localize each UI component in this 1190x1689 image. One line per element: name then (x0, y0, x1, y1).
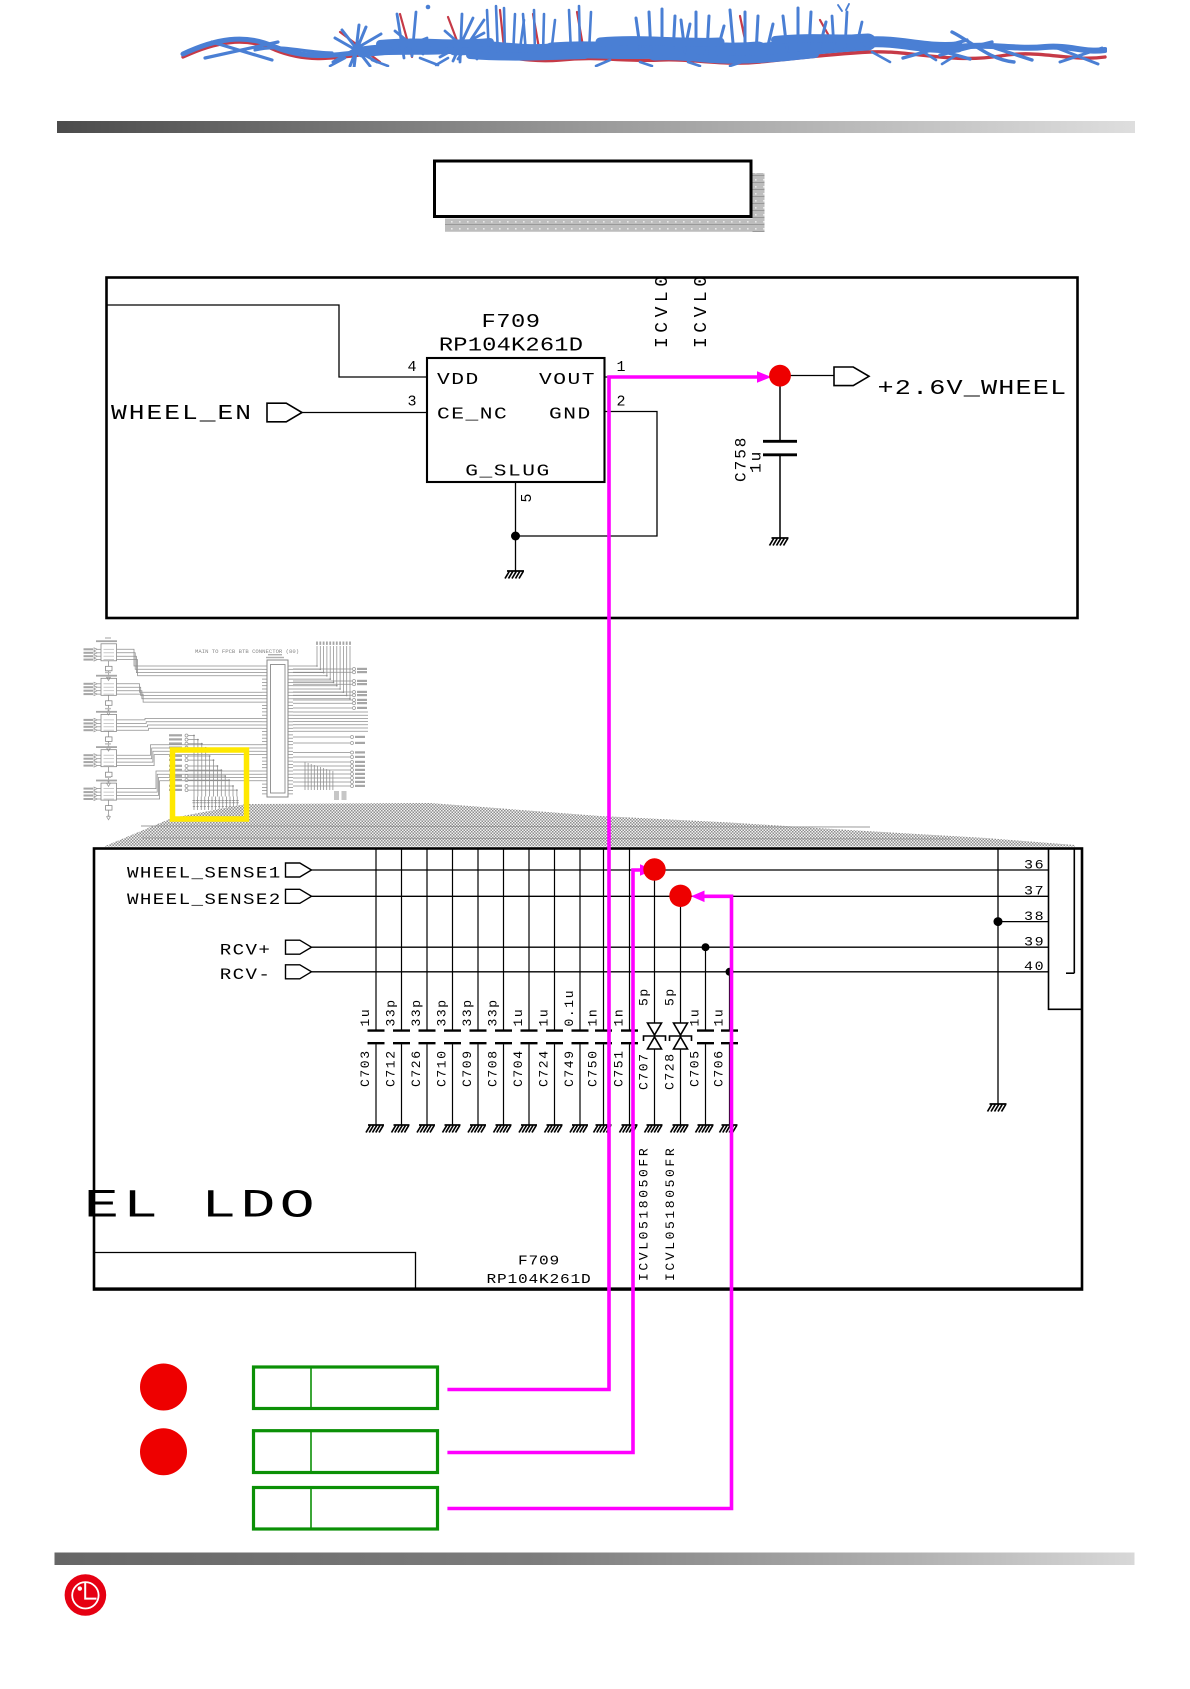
legend box 3 (254, 1488, 438, 1530)
zoom wedge hatch (104, 803, 1075, 847)
thumbnail filter groups and bus wires (94, 644, 262, 820)
svg-text:C750: C750 (586, 1049, 601, 1087)
label C758 (733, 436, 751, 482)
pin name CE_NC (437, 404, 508, 423)
port +2.6V_WHEEL (834, 367, 869, 386)
ground (C750) (594, 1125, 612, 1133)
svg-text:WHEEL_SENSE1: WHEEL_SENSE1 (127, 865, 282, 883)
value 5p (C707) (637, 987, 652, 1006)
svg-text:1: 1 (616, 359, 625, 376)
label C709 (460, 1049, 475, 1087)
pin number 5 (519, 493, 536, 502)
value 33p (C708) (486, 998, 501, 1026)
capacitor C704 (528, 849, 530, 1030)
value 1u (C705) (688, 1008, 703, 1027)
ground (C724) (545, 1125, 563, 1133)
label C706 (712, 1049, 727, 1087)
op-amp U1 : LDO regulator F709 RP104K261D body (427, 358, 605, 482)
ground (C751) (620, 1125, 638, 1133)
capacitor C709 (477, 849, 479, 1030)
top gray divider bar (57, 121, 1135, 133)
svg-text:C708: C708 (486, 1049, 501, 1087)
net label +2.6V_WHEEL (878, 377, 1068, 401)
svg-text:C706: C706 (712, 1049, 727, 1087)
capacitor C724 (554, 849, 556, 1030)
label C750 (586, 1049, 601, 1087)
svg-text:33p: 33p (384, 998, 399, 1026)
ground (C749) (570, 1125, 588, 1133)
svg-text:GND: GND (549, 404, 592, 423)
svg-text:ICVL0: ICVL0 (692, 271, 712, 348)
svg-text:33p: 33p (409, 998, 424, 1026)
ground (C705) (696, 1125, 714, 1133)
svg-text:1u: 1u (688, 1008, 703, 1027)
wire stub pin 38 (998, 921, 1049, 923)
node WHEEL_SENSE2 (red marker) (669, 885, 691, 907)
ground (C709) (468, 1125, 486, 1133)
svg-text:ICVL0518050FR: ICVL0518050FR (663, 1146, 678, 1281)
junction pin 38 / ground bus (994, 917, 1003, 926)
pin name GND (549, 404, 592, 423)
value 33p (C726) (409, 998, 424, 1026)
wire WHEEL_SENSE1 (pin 36) (312, 869, 1049, 871)
svg-text:RCV+: RCV+ (220, 942, 272, 960)
svg-text:C707: C707 (637, 1052, 652, 1090)
svg-text:ICVL0: ICVL0 (653, 271, 673, 348)
svg-text:ICVL0518050FR: ICVL0518050FR (637, 1146, 652, 1281)
svg-text:1n: 1n (612, 1008, 627, 1027)
label F709 (518, 1255, 560, 1269)
capacitor C751 (629, 849, 631, 1030)
callout wire WHEEL_SENSE2 (magenta 3) (447, 896, 731, 1508)
svg-text:F709: F709 (482, 312, 541, 333)
capacitor C726 (426, 849, 428, 1030)
label C728 (663, 1052, 678, 1090)
net label WHEEL_SENSE2 (127, 891, 282, 909)
part number ICVL0518050FR (C728) (663, 1146, 678, 1281)
svg-text:F709: F709 (518, 1255, 560, 1269)
LDO schematic frame (107, 278, 1078, 619)
svg-text:1u: 1u (358, 1008, 373, 1027)
svg-text:5: 5 (519, 493, 536, 502)
legend red circle 1 (140, 1364, 187, 1411)
value 0.1u (C749) (562, 989, 577, 1027)
capacitor C710 (452, 849, 454, 1030)
svg-text:39: 39 (1024, 936, 1045, 950)
value RP104K261D (487, 1273, 592, 1287)
wire WHEEL_EN to pin 3 (302, 412, 427, 414)
svg-text:1u: 1u (511, 1008, 526, 1027)
svg-text:0.1u: 0.1u (562, 989, 577, 1027)
label F709 (482, 312, 541, 333)
value 1n (C750) (586, 1008, 601, 1027)
svg-text:2: 2 (616, 394, 625, 411)
port RCV- (286, 965, 312, 979)
yellow highlight box (173, 750, 247, 819)
title EL LDO (cropped WHEEL LDO) (84, 1184, 319, 1229)
capacitor C708 (503, 849, 505, 1030)
svg-text:VDD: VDD (437, 370, 480, 389)
svg-text:1u: 1u (712, 1008, 727, 1027)
thumbnail connector body (267, 660, 288, 797)
svg-text:C751: C751 (612, 1049, 627, 1087)
ground (C712) (392, 1125, 410, 1133)
wire from frame to VDD pin 4 (107, 305, 427, 377)
node WHEEL_SENSE1 (red marker) (643, 858, 665, 880)
ground (C758) (770, 538, 789, 546)
value 1u (C706) (712, 1008, 727, 1027)
thumbnail mini schematic (84, 637, 369, 820)
thumbnail connector pins (262, 666, 293, 794)
label C705 (688, 1049, 703, 1087)
ground (C707) (645, 1125, 663, 1133)
value 1n (C751) (612, 1008, 627, 1027)
svg-text:C703: C703 (358, 1049, 373, 1087)
decorative blue/red grunge banner (183, 4, 1105, 68)
svg-text:C705: C705 (688, 1049, 703, 1087)
svg-text:RCV-: RCV- (220, 966, 272, 984)
label C707 (637, 1052, 652, 1090)
port RCV+ (286, 940, 312, 954)
connector outline inner wall foot (1066, 972, 1074, 974)
svg-text:CE_NC: CE_NC (437, 404, 508, 423)
wire GND pin 2 loop (516, 412, 658, 537)
wire VOUT to node +2.6V_WHEEL (605, 376, 770, 378)
svg-text:C712: C712 (384, 1049, 399, 1087)
svg-text:C726: C726 (409, 1049, 424, 1087)
junction RCV-/C706 (726, 968, 734, 976)
svg-text:C704: C704 (511, 1049, 526, 1087)
label C708 (486, 1049, 501, 1087)
svg-text:VOUT: VOUT (539, 370, 596, 389)
svg-text:4: 4 (407, 359, 416, 376)
part number ICVL0518050FR (C707) (637, 1146, 652, 1281)
svg-text:5p: 5p (663, 987, 678, 1006)
ground (C710) (443, 1125, 461, 1133)
capacitor C758 (779, 386, 781, 440)
label C703 (358, 1049, 373, 1087)
value 1u (C704) (511, 1008, 526, 1027)
label C724 (537, 1049, 552, 1087)
wire junction to ground (515, 536, 517, 571)
capacitor C749 (579, 849, 581, 1030)
ground (C728) (671, 1125, 689, 1133)
title block partition (95, 1253, 416, 1289)
LG logo (65, 1574, 107, 1616)
connector outline inner wall (1073, 849, 1075, 973)
pin number 39 (1024, 936, 1045, 950)
svg-text:40: 40 (1024, 961, 1045, 975)
ground (C703) (366, 1125, 384, 1133)
thumbnail connector right-side wires (293, 646, 368, 800)
port WHEEL_SENSE2 (286, 889, 312, 903)
value RP104K261D (439, 335, 583, 356)
svg-text:C724: C724 (537, 1049, 552, 1087)
node +2.6V_WHEEL (red marker) (769, 365, 791, 387)
pin number 40 (1024, 961, 1045, 975)
title box (435, 161, 752, 217)
frame bottom edge (95, 1287, 1081, 1289)
bottom gray divider bar (55, 1553, 1135, 1566)
net label WHEEL_SENSE1 (127, 865, 282, 883)
junction RCV+/C705 (702, 943, 710, 951)
svg-text:33p: 33p (435, 998, 450, 1026)
svg-text:1u: 1u (537, 1008, 552, 1027)
svg-text:38: 38 (1024, 911, 1045, 925)
legend red circle 2 (140, 1428, 187, 1475)
ground (pin 38 bus) (988, 1104, 1007, 1112)
callout wire WHEEL_SENSE1 (magenta 2) (447, 870, 641, 1453)
label C751 (612, 1049, 627, 1087)
callout wire VOUT net (magenta 1) (447, 377, 758, 1390)
capacitor C703 (375, 849, 377, 1030)
label C710 (435, 1049, 450, 1087)
svg-text:1u: 1u (748, 450, 766, 473)
value 1u (748, 450, 766, 473)
junction G_SLUG/GND (511, 532, 520, 541)
svg-text:C749: C749 (562, 1049, 577, 1087)
label C749 (562, 1049, 577, 1087)
labels ICVL0 (clipped by frame) (653, 271, 712, 348)
svg-text:RP104K261D: RP104K261D (487, 1273, 592, 1287)
net label RCV+ (220, 942, 272, 960)
diode/capacitor C728 (ESD TVS) (680, 902, 682, 1023)
wire RCV+ (pin 39) (312, 946, 1049, 948)
label C704 (511, 1049, 526, 1087)
pin number 38 (1024, 911, 1045, 925)
svg-text:RP104K261D: RP104K261D (439, 335, 583, 356)
value 33p (C710) (435, 998, 450, 1026)
svg-text:G_SLUG: G_SLUG (465, 461, 550, 480)
svg-text:MAIN TO FPCB BTB CONNECTOR (80: MAIN TO FPCB BTB CONNECTOR (80) (195, 648, 299, 655)
value 1u (C724) (537, 1008, 552, 1027)
legend box 1 (254, 1367, 438, 1409)
svg-text:1n: 1n (586, 1008, 601, 1027)
ground (C726) (417, 1125, 435, 1133)
wire RCV- (pin 40) (312, 971, 1049, 973)
svg-text:33p: 33p (460, 998, 475, 1026)
diode/capacitor C707 (ESD TVS) (654, 876, 656, 1023)
ground (C708) (494, 1125, 512, 1133)
svg-text:WHEEL_EN: WHEEL_EN (111, 402, 253, 426)
capacitor C712 (401, 849, 403, 1030)
ground (G_SLUG) (505, 571, 524, 579)
wire G_SLUG pin 5 (515, 482, 517, 536)
pin name VOUT (539, 370, 596, 389)
svg-text:36: 36 (1024, 859, 1045, 873)
legend box 2 (254, 1431, 438, 1473)
svg-text:EL LDO: EL LDO (84, 1184, 319, 1229)
svg-text:C728: C728 (663, 1052, 678, 1090)
pin name VDD (437, 370, 480, 389)
wire node to output port (790, 375, 834, 377)
value 1u (C703) (358, 1008, 373, 1027)
pin name G_SLUG (465, 461, 550, 480)
port WHEEL_EN (267, 403, 302, 422)
wire WHEEL_SENSE2 (pin 37) (312, 895, 1049, 897)
svg-text:5p: 5p (637, 987, 652, 1006)
label C726 (409, 1049, 424, 1087)
capacitor C750 (603, 849, 605, 1030)
title box shadow (753, 173, 765, 232)
thumbnail wheel-signal cluster (185, 734, 238, 797)
thumbnail capacitor cluster (192, 797, 238, 811)
node WHEEL_EN (111, 402, 253, 426)
svg-text:3: 3 (407, 394, 416, 411)
svg-text:WHEEL_SENSE2: WHEEL_SENSE2 (127, 891, 282, 909)
svg-text:C710: C710 (435, 1049, 450, 1087)
ground (C706) (720, 1125, 738, 1133)
connector outline left wall (1049, 849, 1082, 1009)
detail schematic frame (94, 849, 1082, 1290)
port WHEEL_SENSE1 (286, 863, 312, 877)
pin number 36 (1024, 859, 1045, 873)
wire ground bus (pin 38) (997, 849, 999, 1105)
svg-text:33p: 33p (486, 998, 501, 1026)
value 33p (C712) (384, 998, 399, 1026)
svg-text:C709: C709 (460, 1049, 475, 1087)
svg-text:+2.6V_WHEEL: +2.6V_WHEEL (878, 377, 1068, 401)
ground (C704) (519, 1125, 537, 1133)
svg-text:37: 37 (1024, 885, 1045, 899)
value 5p (C728) (663, 987, 678, 1006)
label C712 (384, 1049, 399, 1087)
pin number 37 (1024, 885, 1045, 899)
net label RCV- (220, 966, 272, 984)
value 33p (C709) (460, 998, 475, 1026)
